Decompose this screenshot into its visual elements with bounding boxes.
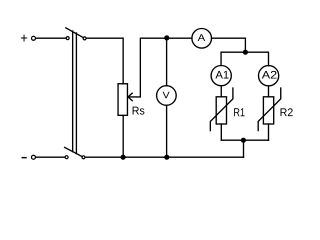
wire R2 to collector rail — [268, 124, 270, 140]
Rs value label — [133, 107, 145, 115]
switch S1 bottom pole right contact — [82, 156, 85, 159]
wire ammeter A to branch rail — [212, 38, 246, 52]
voltmeter V — [157, 86, 177, 106]
Rs wiper wire — [128, 38, 192, 97]
switch coupling bar right — [75, 33, 77, 154]
R2 value label — [281, 108, 293, 116]
branch distribution rail — [221, 52, 268, 65]
- terminal label — [22, 157, 27, 159]
Rs wiper arrowhead — [128, 93, 132, 101]
wire A2 to R2 — [268, 86, 270, 97]
resistor R2 body — [263, 97, 273, 124]
R1 value label — [234, 108, 245, 116]
+ terminal — [32, 36, 36, 40]
ammeter A — [192, 29, 212, 49]
switch S1 top pole right contact — [83, 37, 86, 40]
switch S1 top pole left contact — [66, 37, 69, 40]
bottom rail wire — [85, 156, 243, 158]
resistor R1 variability stroke — [210, 88, 233, 131]
wire A1 to R1 — [220, 86, 222, 97]
ammeter A1 — [211, 66, 231, 86]
wire Rs bottom to bottom rail — [122, 115, 124, 157]
wire R1 to collector rail — [220, 124, 222, 140]
wire - terminal to switch — [36, 156, 65, 158]
collector rail — [221, 139, 268, 141]
- terminal — [31, 155, 35, 159]
switch S1 top pole blade — [66, 28, 84, 38]
node: Rs bottom junction — [121, 155, 126, 160]
node: collector rail junction — [241, 138, 246, 143]
node: voltmeter bottom junction — [164, 155, 169, 160]
wire + terminal to switch — [36, 37, 66, 39]
resistor R2 variability stroke — [258, 88, 281, 131]
wire to voltmeter top — [166, 38, 168, 86]
node: wiper/voltmeter junction — [164, 35, 169, 40]
wire voltmeter bottom to bottom rail — [166, 105, 168, 157]
node: branch rail junction — [243, 50, 248, 55]
switch S1 bottom pole left contact — [65, 156, 68, 159]
switch S1 bottom pole blade — [65, 147, 83, 156]
resistor R1 body — [216, 97, 226, 124]
switch coupling bar left — [72, 31, 74, 152]
potentiometer Rs body — [118, 84, 127, 116]
wire switch to potentiometer Rs top — [86, 38, 123, 84]
ammeter A2 — [259, 66, 279, 86]
wire collector rail to bottom rail — [243, 140, 245, 157]
+ terminal label — [21, 35, 27, 42]
